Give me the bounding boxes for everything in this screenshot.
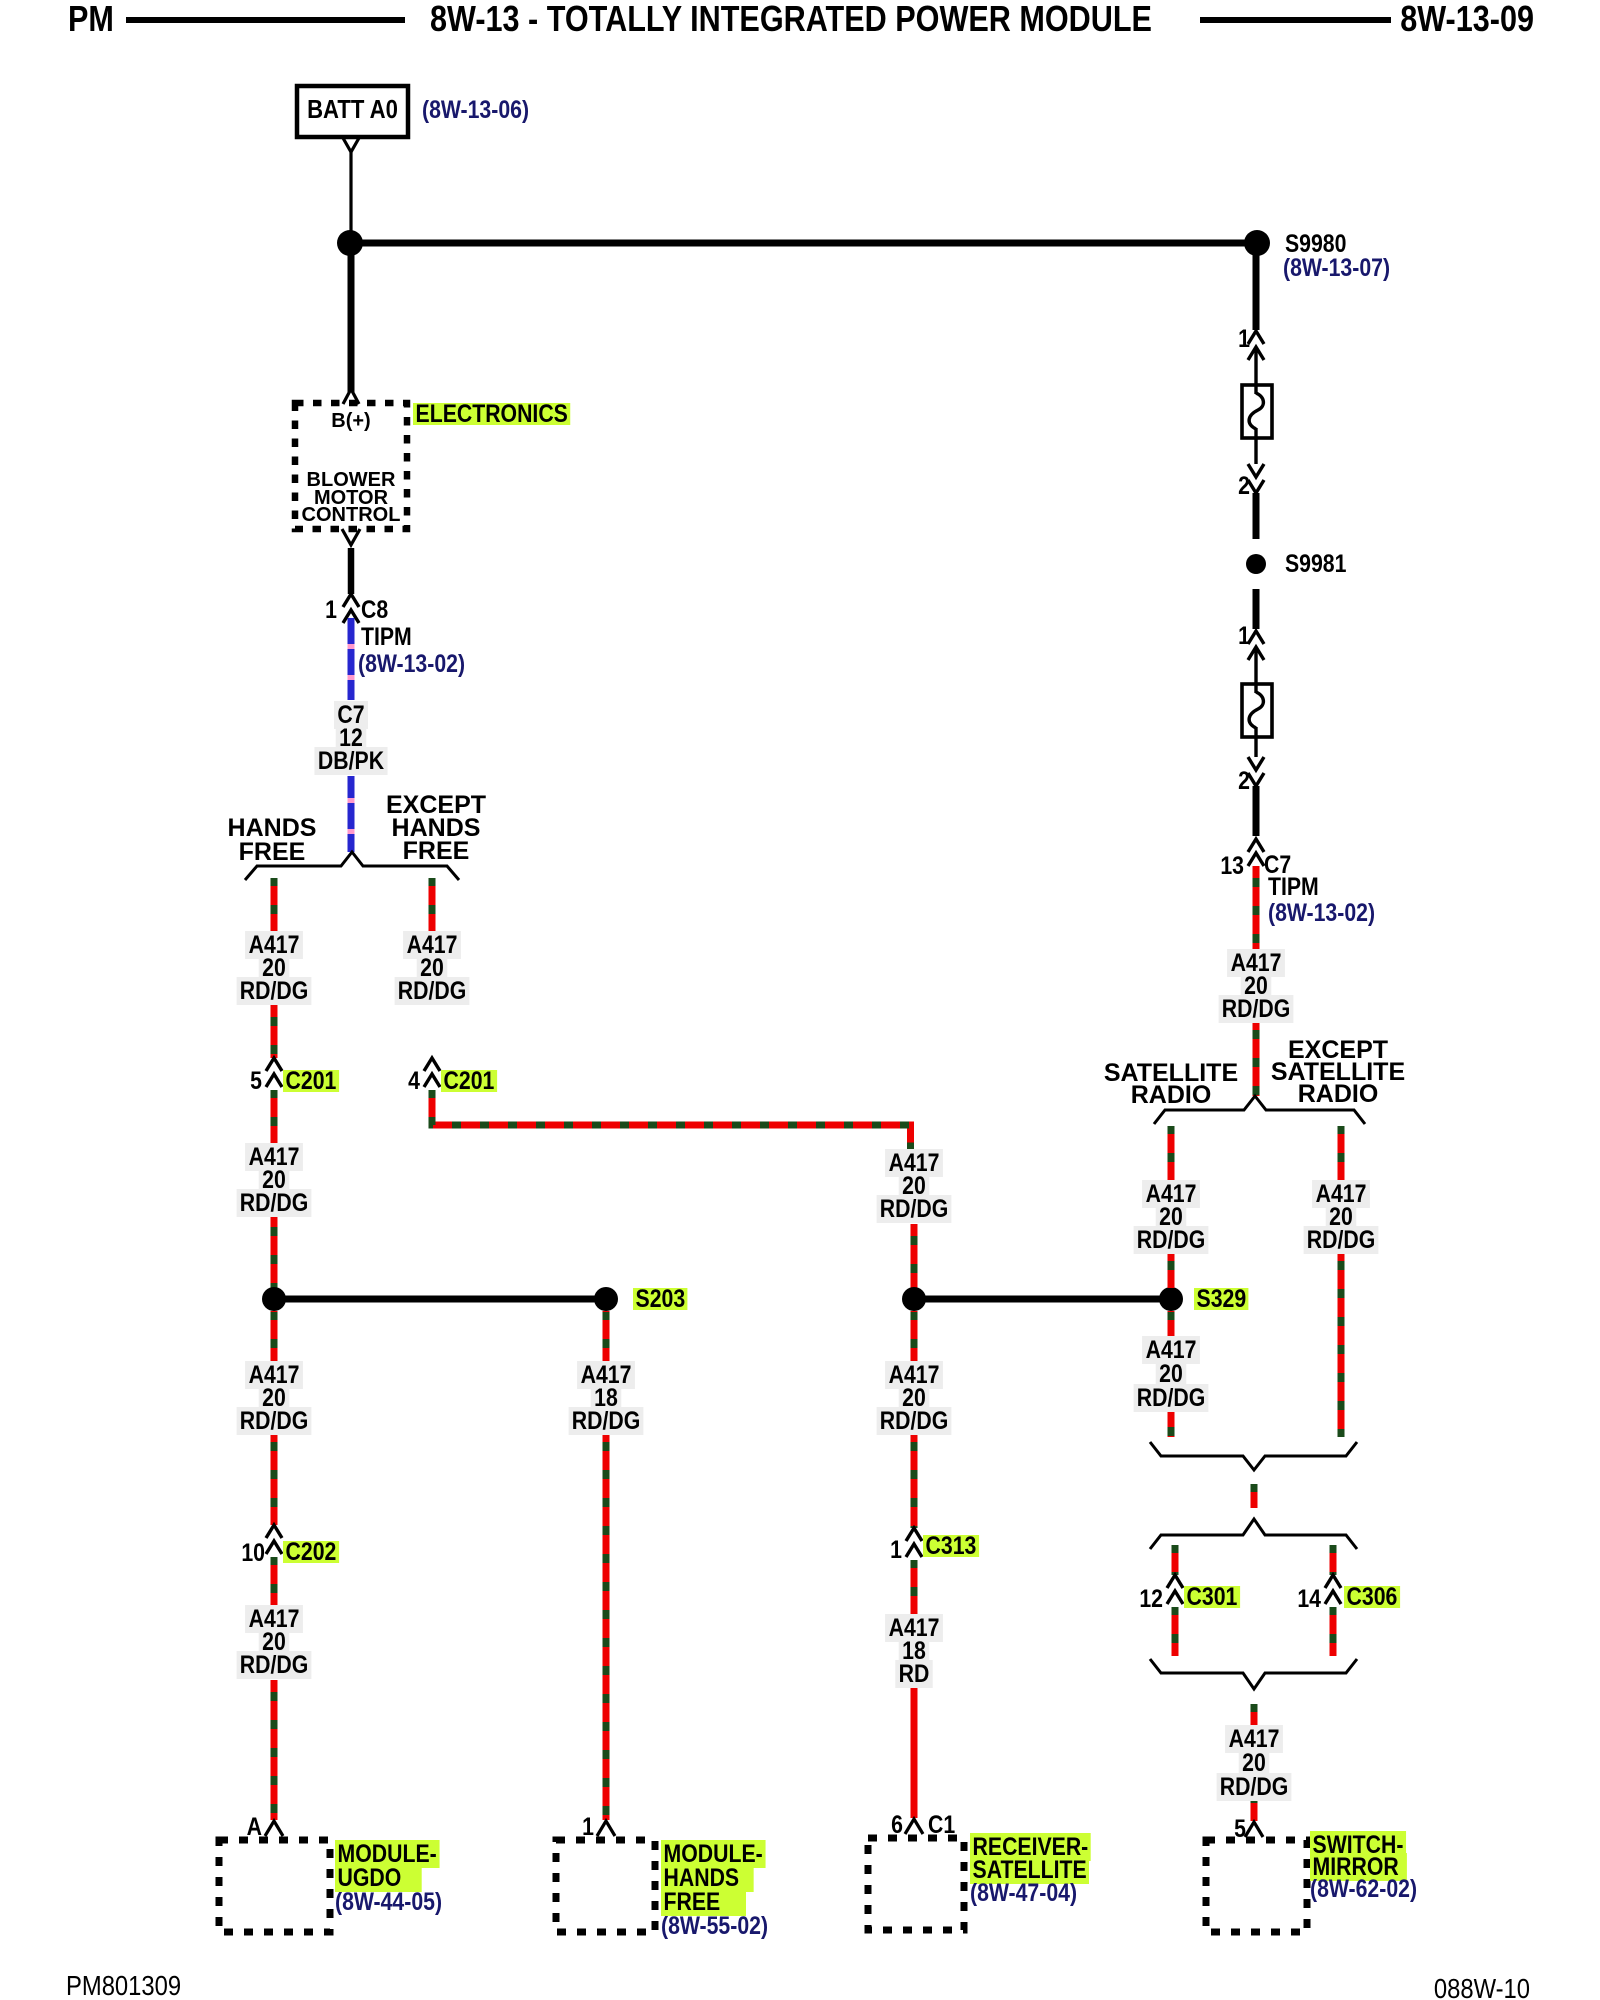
pin chevron out of blower motor control [342,529,360,545]
wire C7 12 DB/PK lower segment [348,776,355,852]
pin chevron 1 into module hands free [597,1821,615,1836]
wire except satellite branch upper [1338,1126,1345,1180]
label TIPM upper [361,626,412,649]
wire C301 to merge brace [1172,1607,1179,1656]
fuse2 pin 1 chevrons [1248,631,1264,660]
pin 5 of C201 [228,1070,262,1093]
pin chevron A into module UGDO [265,1821,283,1836]
pin 4 of C201 [386,1070,420,1093]
header title [409,4,1174,34]
wire fuse1 down [1254,428,1257,464]
node S203 left [262,1287,286,1311]
wire label7 to S329 junction [911,1224,918,1288]
connector C201 pin 5 chevrons [266,1058,282,1087]
splice S9980 [1244,230,1270,256]
pin 1 into module hands free [560,1816,594,1839]
wire C7 to label10 [1253,866,1260,950]
label MODULE-UGDO [335,1842,442,1914]
brace split hands free [245,852,459,880]
label S9981 [1285,553,1346,576]
wire C202 to label5 [271,1557,278,1605]
module switch mirror dashed box [1206,1840,1307,1932]
label C8 [361,599,388,622]
wire label5 to module UGDO [271,1680,278,1820]
label S9980 [1285,233,1346,256]
pin chevron 6 C1 into receiver [905,1819,923,1834]
wire label C7 12 DB/PK [300,704,402,773]
wire long to module hands free [603,1434,610,1820]
pin 1 of C313 [868,1539,902,1562]
wire A417 except hands free upper [429,878,436,931]
pin 2 fuse2 [1216,770,1250,793]
label BATT A0 [305,98,399,121]
label RECEIVER-SATELLITE [970,1836,1091,1905]
module receiver satellite dashed box [868,1838,964,1930]
wire S203 to label A417 18 [603,1311,610,1361]
wire C306 to merge brace [1330,1607,1337,1656]
connector C7 pin 13 chevrons [1248,839,1264,866]
pin 10 of C202 [231,1542,265,1565]
wire label5 A417 20 RD/DG [223,1608,325,1677]
wire label10 A417 20 RD/DG [1205,952,1307,1021]
wire between merge and split braces [1251,1484,1258,1508]
wire C7 12 DB/PK upper segment [348,618,355,700]
wire label6 to C202 [271,1434,278,1525]
pin 14 of C306 [1287,1588,1321,1611]
header rule right [1200,17,1391,23]
wire S9981 down [1253,589,1260,629]
wire S9980 down [1253,255,1260,330]
splice bus S203 [274,1296,606,1303]
pin 1 fuse2 [1216,625,1250,648]
brace merge mirror circuits [1150,1659,1357,1689]
wire label8 A417 20 RD/DG [863,1364,965,1433]
reference 8W-13-02 lower [1268,902,1375,925]
wire C313 to label9 [911,1560,918,1614]
wire label13 to merge brace [1168,1411,1175,1437]
wire label10 to satellite brace [1253,1022,1260,1096]
wire label13 A417 20 RD/DG [1120,1338,1222,1410]
wire C201 pin5 to label2 [271,1090,278,1143]
brace split satellite radio [1154,1096,1365,1124]
label BLOWER MOTOR CONTROL [281,472,421,525]
pin 13 of C7 [1210,855,1244,878]
connector C306 pin 14 chevrons [1325,1575,1341,1604]
wire label2 to S203 [271,1215,278,1288]
wire to S9981 [1253,493,1260,539]
wire S329 to label13 [1168,1311,1175,1337]
label C301 [1184,1586,1240,1609]
wire to C306 [1330,1545,1337,1575]
wire merge to label14 [1251,1704,1258,1726]
node junction left [337,230,363,256]
label TIPM lower [1268,876,1319,899]
wire label11 A417 20 RD/DG [1120,1183,1222,1252]
wire bus to S9980 [350,240,1257,247]
wire label11 to S329 [1168,1253,1175,1288]
wire to C7 [1253,786,1260,836]
node S329 right [1159,1287,1183,1311]
wire C201 pin4 corner run to receiver branch [432,1090,911,1149]
fuse 1 [1242,385,1272,438]
connector C201 pin 4 chevrons [424,1058,440,1087]
module UGDO dashed box [219,1840,330,1932]
pin 12 of C301 [1129,1588,1163,1611]
label C306 [1344,1586,1400,1609]
connector C202 pin 10 chevrons [266,1525,282,1554]
label C201 right [441,1070,497,1093]
wire satellite radio branch upper [1168,1126,1175,1180]
reference 8W-13-06 [422,99,529,122]
wire label6 A417 20 RD/DG [223,1364,325,1433]
header rule left [126,17,405,23]
wire A417 hands free upper [271,878,278,931]
label SATELLITE RADIO [1091,1062,1251,1106]
wire label3 A417 20 RD/DG [223,1146,325,1215]
label C1 [928,1814,955,1837]
label SWITCH-MIRROR [1310,1834,1417,1900]
fuse 2 [1242,684,1272,737]
connector chevron below BATT A0 [343,138,359,152]
splice S9981 [1246,554,1266,574]
fuse pin 1 chevrons upper [1248,331,1264,360]
connector C8 pin 1 chevrons [343,594,359,623]
pin chevron 5 into switch mirror [1245,1822,1263,1837]
wire label9 A417 18 RD [863,1617,965,1686]
reference 8W-13-02 upper [358,653,465,676]
label C313 [923,1535,979,1558]
pin 2 fuse1 [1216,475,1250,498]
wire A417 18 RD solid to receiver [911,1687,918,1818]
pin 5 into switch mirror [1212,1818,1246,1841]
label C202 [283,1541,339,1564]
node S203 right [594,1287,618,1311]
brace merge satellite branches [1150,1442,1357,1470]
wire chevron to fuse2 [1254,647,1257,693]
header page number [1364,4,1534,34]
wire label1 to C201 pin5 [271,1005,278,1058]
wire junction to blower motor control [348,243,355,392]
splice bus S329 [914,1296,1171,1303]
wire blower motor control to C8 [348,548,355,594]
pin chevron B(+) into module [343,389,359,404]
label C201 left [283,1070,339,1093]
footer sheet number [66,1974,181,1997]
wire to C301 [1172,1545,1179,1575]
wire label14 A417 20 RD/DG [1203,1727,1305,1799]
label B(+) [301,410,401,433]
wire label2 A417 20 RD/DG [381,934,483,1003]
fuse2 pin 2 chevrons [1248,757,1264,786]
header label PM [68,4,114,34]
label HANDS FREE [192,816,352,864]
pin 6 of C1 [869,1814,903,1837]
wire except satellite long down [1338,1253,1345,1437]
label S329 [1194,1288,1249,1311]
wire S329 junction to label8 [911,1311,918,1361]
wire label A417 18 RD/DG [555,1364,657,1433]
node S329 junction left [902,1287,926,1311]
label EXCEPT SATELLITE RADIO [1258,1039,1418,1105]
wire BATT A0 to junction [349,152,352,243]
connector C313 pin 1 chevrons [906,1528,922,1557]
battery feed box BATT A0 [297,86,408,137]
wire chevron to fuse1 [1254,347,1257,394]
label EXCEPT HANDS FREE [356,794,516,863]
wire fuse2 down [1254,727,1257,757]
wire label7 A417 20 RD/DG [863,1152,965,1221]
pin 1 of C8 [303,599,337,622]
wire label1 A417 20 RD/DG [223,934,325,1003]
label MODULE-HANDS FREE [661,1842,768,1938]
fuse pin 2 chevrons lower [1248,464,1264,493]
wire label12 A417 20 RD/DG [1290,1183,1392,1252]
pin 1 fuse1 [1216,328,1250,351]
footer drawing number [1411,1977,1530,2000]
reference 8W-13-07 [1283,257,1390,280]
connector C301 pin 12 chevrons [1167,1575,1183,1604]
label S203 [633,1288,688,1311]
wire label14 to switch mirror [1251,1795,1258,1821]
label ELECTRONICS [413,403,570,426]
label C7 [1264,854,1291,877]
wire S203 to label6 [271,1311,278,1361]
pin A into module UGDO [228,1816,262,1839]
wire label8 to C313 [911,1434,918,1528]
module hands free dashed box [556,1840,655,1932]
module BLOWER MOTOR CONTROL dashed box [295,403,407,529]
brace split mirror circuits [1150,1519,1357,1549]
